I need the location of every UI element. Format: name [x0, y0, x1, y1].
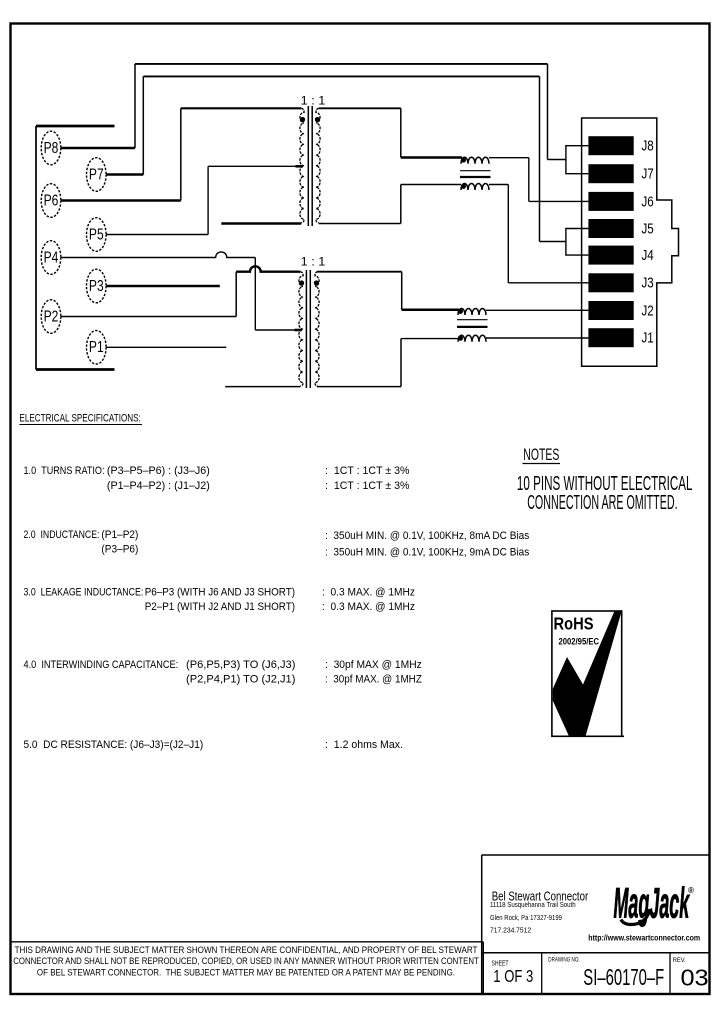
wire T2 primary bottom lead (free end): [225, 386, 300, 388]
svg-text:03: 03: [681, 966, 709, 992]
svg-text:J5: J5: [642, 220, 654, 237]
wire P5 to T1 primary center tap: [106, 166, 303, 234]
spec 1.0 turns ratio: [24, 465, 410, 492]
pin P5: [87, 218, 107, 252]
svg-text:: 1CT : 1CT ± 3%: : 1CT : 1CT ± 3%: [325, 480, 410, 492]
MagJack logo: [614, 878, 695, 926]
pin P2: [41, 300, 61, 334]
J5/J4 tie stub: [566, 229, 589, 256]
svg-text:CONNECTION ARE OMITTED.: CONNECTION ARE OMITTED.: [527, 491, 677, 514]
pad J6: [588, 192, 653, 211]
wire P3 stub (free end): [106, 285, 220, 288]
svg-text:: 350uH MIN. @ 0.1V, 100KHz,: : 350uH MIN. @ 0.1V, 100KHz, 9mA DC Bias: [325, 546, 529, 559]
svg-text:P2–P1 (WITH J2 AND J1 SHORT): P2–P1 (WITH J2 AND J1 SHORT): [145, 602, 295, 614]
heading ELECTRICAL SPECIFICATIONS: [19, 412, 142, 425]
J8/J7 tie stub: [566, 146, 589, 174]
svg-text:: 30pf MAX @ 1MHz: : 30pf MAX @ 1MHz: [325, 659, 422, 671]
svg-text:J7: J7: [642, 165, 654, 182]
svg-text:SI–60170–F: SI–60170–F: [583, 965, 664, 991]
svg-text:P1: P1: [89, 338, 104, 356]
T2 secondary winding: [315, 272, 319, 387]
svg-text:(P3–P6): (P3–P6): [101, 543, 138, 556]
svg-text:J6: J6: [642, 193, 654, 210]
wire P2 riser to T2 primary top: [61, 272, 236, 317]
wire P7 to J5/J4 pair: [106, 76, 566, 241]
T2 primary winding: [299, 272, 303, 387]
svg-text:2.0 INDUCTANCE:: 2.0 INDUCTANCE:: [24, 529, 100, 541]
wire choke L1 top to J6: [489, 158, 588, 202]
svg-text:: 0.3 MAX. @ 1MHz: : 0.3 MAX. @ 1MHz: [322, 601, 415, 613]
L1 bottom coil: [461, 184, 489, 191]
svg-text:2002/95/EC: 2002/95/EC: [559, 636, 599, 647]
pin P6: [41, 184, 61, 218]
svg-text:: 350uH MIN. @ 0.1V, 100KHz,: : 350uH MIN. @ 0.1V, 100KHz, 8mA DC Bias: [325, 530, 529, 543]
T2 primary phase dot: [299, 280, 304, 285]
wire T1 primary bottom lead (free end): [221, 222, 301, 225]
wire choke L2 bottom to J1: [486, 337, 588, 339]
pad J7: [588, 164, 653, 183]
svg-text:717.234.7512: 717.234.7512: [490, 927, 531, 934]
svg-text:: 1.2 ohms Max.: : 1.2 ohms Max.: [325, 739, 403, 751]
L2 phase dots: [458, 309, 463, 314]
pad J2: [588, 301, 653, 320]
svg-text:1 OF 3: 1 OF 3: [493, 967, 533, 986]
wire choke L2 top to J2: [486, 309, 588, 311]
transformer T1: [300, 94, 326, 226]
wire T1 secondary bottom to choke L1: [319, 185, 461, 224]
choke L2: [457, 309, 488, 342]
svg-text:(P2,P4,P1) TO (J2,J1): (P2,P4,P1) TO (J2,J1): [186, 674, 295, 686]
pad J5: [588, 219, 653, 238]
svg-text:P8: P8: [44, 138, 59, 156]
L1 top coil: [461, 157, 489, 163]
spec 2.0 inductance: [24, 528, 530, 558]
title block frame: [482, 855, 710, 994]
wire T1 secondary top to choke L1: [319, 108, 462, 157]
svg-text:P7: P7: [89, 165, 104, 183]
svg-text:NOTES: NOTES: [523, 444, 559, 463]
svg-text:Glen Rock, Pa 17327-9199: Glen Rock, Pa 17327-9199: [490, 915, 562, 923]
svg-text:(P1–P4–P2) : (J1–J2): (P1–P4–P2) : (J1–J2): [107, 480, 210, 492]
svg-text:P6–P3 (WITH J6 AND J3 SHORT): P6–P3 (WITH J6 AND J3 SHORT): [145, 587, 295, 599]
svg-text:J3: J3: [642, 274, 654, 291]
wire P4 to T2 primary center tap (hop over T1 lead end): [61, 252, 302, 330]
svg-text:DRAWING NO.: DRAWING NO.: [548, 957, 580, 964]
svg-text:(P6,P5,P3) TO (J6,J3): (P6,P5,P3) TO (J6,J3): [186, 659, 295, 671]
heading NOTES: [523, 444, 561, 463]
T1 core: [308, 106, 312, 226]
svg-text:11118 Susquehanna Trail South: 11118 Susquehanna Trail South: [490, 902, 576, 909]
svg-text:®: ®: [688, 886, 694, 895]
T1 primary phase dot: [300, 117, 305, 122]
RoHS logo: [552, 611, 624, 736]
svg-text:5.0 DC RESISTANCE: (J6–J3)=(J: 5.0 DC RESISTANCE: (J6–J3)=(J2–J1): [24, 739, 204, 751]
svg-text:REV.: REV.: [673, 957, 686, 964]
L2 top coil: [458, 309, 486, 316]
svg-text:P3: P3: [89, 276, 104, 294]
svg-text:J2: J2: [642, 302, 654, 319]
T1 secondary phase dot: [315, 117, 320, 122]
wire choke L1 bottom to J3: [489, 185, 588, 283]
wire T2 primary top lead (thick, hops over P4 riser): [236, 266, 300, 271]
svg-text:OF BEL STEWART CONNECTOR. THE: OF BEL STEWART CONNECTOR. THE SUBJECT MA…: [37, 967, 455, 978]
svg-text:3.0 LEAKAGE INDUCTANCE:: 3.0 LEAKAGE INDUCTANCE:: [24, 587, 144, 599]
svg-text:4.0 INTERWINDING CAPACITANCE:: 4.0 INTERWINDING CAPACITANCE:: [24, 659, 179, 671]
wire P1 stub (free end): [106, 346, 226, 348]
svg-text:ELECTRICAL SPECIFICATIONS:: ELECTRICAL SPECIFICATIONS:: [19, 412, 140, 425]
pin P1: [87, 331, 107, 365]
svg-text:THIS DRAWING AND THE SUBJECT M: THIS DRAWING AND THE SUBJECT MATTER SHOW…: [15, 945, 479, 956]
L2 core: [457, 319, 488, 321]
svg-text:P2: P2: [44, 307, 59, 325]
svg-text:J8: J8: [642, 137, 654, 154]
RoHS checkmark: [553, 611, 622, 736]
svg-text:MagJack: MagJack: [614, 878, 691, 926]
pad J3: [588, 273, 653, 292]
MagJack swoosh: [621, 909, 650, 925]
svg-text:1 : 1: 1 : 1: [301, 255, 326, 269]
svg-text:J4: J4: [642, 247, 655, 264]
wire P8 to J8/J7 pair: [61, 64, 566, 160]
T1 secondary winding: [316, 108, 320, 222]
disclaimer box: [11, 942, 484, 994]
svg-text:: 30pf MAX. @ 1MHZ: : 30pf MAX. @ 1MHZ: [325, 674, 422, 686]
svg-text:http://www.stewartconnector.co: http://www.stewartconnector.com: [588, 933, 700, 943]
wire T2 secondary bottom to choke L2: [317, 339, 458, 387]
svg-text:RoHS: RoHS: [554, 616, 594, 634]
svg-text:P6: P6: [44, 191, 59, 209]
svg-text:CONNECTOR AND SHALL NOT BE REP: CONNECTOR AND SHALL NOT BE REPRODUCED, C…: [13, 956, 478, 967]
pin header bracket: [36, 126, 115, 370]
pad J4: [588, 246, 654, 265]
svg-text:(P1–P2): (P1–P2): [101, 528, 138, 541]
T2 secondary phase dot: [314, 280, 319, 285]
svg-text:P5: P5: [89, 225, 104, 243]
svg-text:1.0 TURNS RATIO:: 1.0 TURNS RATIO:: [24, 465, 105, 477]
L2 bottom coil: [458, 335, 486, 342]
svg-text:J1: J1: [642, 329, 654, 346]
pin P8: [41, 131, 61, 165]
pin P7: [87, 158, 107, 192]
connector outline (modular jack): [582, 118, 679, 366]
L1 phase dots: [461, 157, 466, 162]
pin P4: [41, 241, 61, 275]
pad J8: [588, 136, 653, 155]
svg-text:: 1CT : 1CT ± 3%: : 1CT : 1CT ± 3%: [325, 465, 410, 477]
T2 core: [306, 270, 310, 388]
T1 primary winding: [300, 108, 304, 222]
svg-text:P4: P4: [44, 248, 59, 266]
L1 core: [460, 170, 491, 172]
pad J1: [588, 328, 653, 347]
spec 3.0 leakage inductance: [24, 586, 415, 613]
spec 5.0 dc resistance: [24, 739, 403, 751]
svg-text:1 : 1: 1 : 1: [301, 94, 326, 108]
spec 4.0 interwinding capacitance: [24, 659, 423, 686]
svg-text:(P3–P5–P6) : (J3–J6): (P3–P5–P6) : (J3–J6): [107, 465, 210, 477]
wire P6 to T1 primary top: [61, 108, 301, 200]
transformer T2: [299, 255, 326, 388]
pin P3: [87, 269, 107, 303]
svg-text:: 0.3 MAX. @ 1MHz: : 0.3 MAX. @ 1MHz: [322, 586, 415, 598]
choke L1: [460, 157, 491, 190]
wire T2 secondary top to choke L2: [317, 272, 459, 310]
